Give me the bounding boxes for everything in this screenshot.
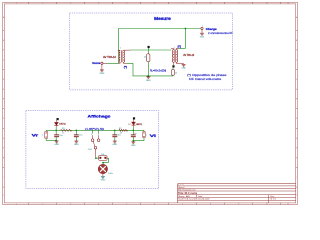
svg-text:9: 9 [238,3,239,5]
svg-text:GND: GND [112,144,117,146]
svg-text:F: F [3,118,4,120]
svg-text:(1.85*V/1.5t): (1.85*V/1.5t) [85,128,104,131]
svg-text:11: 11 [287,203,289,205]
svg-text:9: 9 [238,203,239,205]
svg-text:1: 1 [202,26,203,28]
svg-text:11: 11 [287,3,289,5]
svg-text:10: 10 [266,3,268,5]
svg-text:Vi: Vi [150,133,156,138]
svg-text:GND: GND [54,144,59,146]
svg-text:2: 2 [42,203,43,205]
svg-text:1: 1 [42,134,43,136]
svg-text:8: 8 [210,3,211,5]
svg-text:Id: 1/1: Id: 1/1 [270,199,276,201]
svg-text:GND: GND [100,180,105,182]
svg-text:1: 1 [120,48,121,50]
svg-text:GND: GND [99,73,104,75]
svg-text:NF Calcul volt-metre: NF Calcul volt-metre [189,77,222,81]
svg-text:(*): (*) [124,65,127,69]
svg-text:4: 4 [98,3,99,5]
svg-text:5: 5 [126,203,127,205]
svg-text:4: 4 [98,203,99,205]
svg-text:5: 5 [126,3,127,5]
svg-text:1k: 1k [120,133,122,135]
svg-text:2: 2 [42,3,43,5]
svg-text:1N5711: 1N5711 [59,124,66,126]
svg-text:GND: GND [131,145,136,147]
svg-text:1: 1 [16,203,17,205]
svg-text:Charge: Charge [206,27,217,31]
svg-text:1N5711: 1N5711 [136,124,143,126]
svg-text:(*) Opposition de phase: (*) Opposition de phase [187,73,227,77]
svg-text:AV TPA-10: AV TPA-10 [103,56,117,59]
svg-text:1: 1 [91,134,92,136]
svg-text:Mesure: Mesure [154,16,171,21]
svg-text:1: 1 [146,134,147,136]
svg-text:8: 8 [210,203,211,205]
svg-text:Date:: Date: [198,195,203,198]
svg-text:Source: Source [92,61,100,65]
svg-text:10u: 10u [59,135,62,137]
svg-text:1k: 1k [62,132,64,134]
svg-text:2 enroulements+50: 2 enroulements+50 [208,31,233,35]
svg-text:Affichage: Affichage [88,113,112,118]
svg-text:Rev:: Rev: [270,196,275,198]
svg-text:7: 7 [182,3,183,5]
svg-text:RL=R0+Z+|ZM|: RL=R0+Z+|ZM| [150,69,166,72]
svg-text:7: 7 [182,203,183,205]
svg-text:10u: 10u [118,134,121,136]
svg-text:[*]: [*] [178,45,181,49]
svg-text:KiCad E.D.A. kicad (2014-01-2: KiCad E.D.A. kicad (2014-01-24)-stable [178,198,210,201]
svg-text:Size: A4: Size: A4 [178,195,191,198]
svg-text:F: F [296,118,297,120]
svg-text:6: 6 [154,203,155,205]
svg-text:10k: 10k [101,154,104,156]
svg-text:J: J [296,195,297,197]
svg-text:AV TPA-10: AV TPA-10 [183,54,194,57]
svg-text:6: 6 [154,3,155,5]
svg-text:GND: GND [181,68,186,70]
svg-text:10: 10 [266,203,268,205]
svg-text:GND: GND [146,80,151,82]
svg-text:GND: GND [200,36,205,38]
svg-text:GND: GND [74,144,79,146]
svg-text:3: 3 [70,203,71,205]
svg-text:1: 1 [16,3,17,5]
svg-text:10u: 10u [79,134,82,136]
svg-text:1: 1 [174,47,175,49]
svg-text:3: 3 [70,3,71,5]
svg-text:Vr: Vr [32,132,39,137]
svg-text:Title: RLC metre: Title: RLC metre [178,191,198,195]
